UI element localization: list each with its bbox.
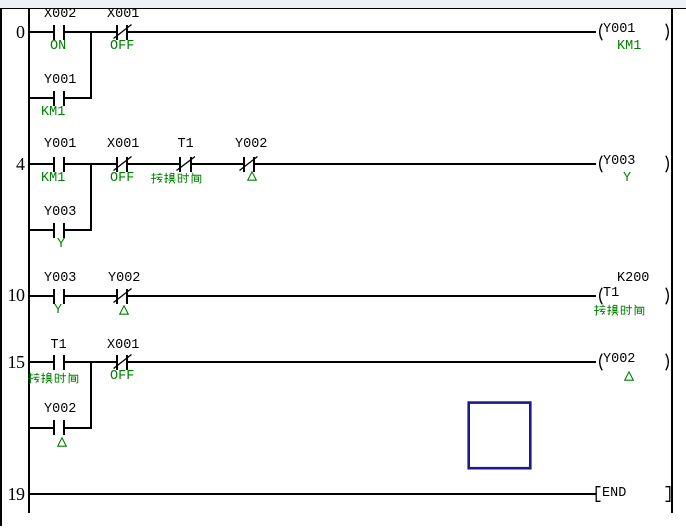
wire rung10 seg3	[128, 295, 596, 297]
selection box	[466, 400, 533, 471]
wire rung10 seg1	[30, 295, 54, 297]
comment Y coil	[623, 171, 631, 187]
NO contact Y003	[53, 289, 55, 304]
comment OFF rung4	[110, 171, 134, 187]
rung number 0	[0, 22, 25, 43]
comment ON	[50, 39, 66, 55]
comment KM1 branch	[41, 105, 65, 121]
label X001	[107, 7, 139, 23]
label END	[602, 486, 626, 502]
NC contact Y002 rung10	[116, 289, 118, 304]
wire rung0 seg3	[128, 31, 596, 33]
wire branch1 seg1	[30, 97, 54, 99]
NC contact T1	[179, 157, 181, 172]
label T1 coil	[603, 286, 619, 302]
junction rung4 branch	[90, 163, 92, 231]
comment triangle coil	[624, 371, 634, 382]
wire rung4 seg3	[128, 163, 179, 165]
NO contact Y001 branch	[53, 91, 55, 106]
NC contact X001 rung15	[116, 355, 118, 370]
label Y002 rung10	[108, 271, 140, 287]
wire branch1 seg2	[65, 97, 92, 99]
comment OFF rung15	[110, 369, 134, 385]
left power rail	[28, 8, 30, 513]
comment OFF	[110, 39, 134, 55]
rung number 10	[0, 285, 25, 306]
rung number 15	[0, 352, 25, 373]
wire branch3 seg2	[65, 427, 92, 429]
END instruction	[595, 486, 605, 502]
label Y001 coil	[603, 22, 635, 38]
wire branch2 seg2	[65, 229, 92, 231]
label Y002 branch	[44, 402, 76, 418]
comment KM1	[41, 171, 65, 187]
comment zhuanhuanshijian rung15	[28, 372, 81, 385]
label K200	[617, 271, 649, 287]
junction rung15 branch	[90, 361, 92, 429]
wire rung15 seg2	[65, 361, 116, 363]
coil Y001	[596, 23, 604, 41]
label Y003 rung10	[44, 271, 76, 287]
wire rung4 seg4	[192, 163, 243, 165]
NO contact T1 rung15	[53, 355, 55, 370]
NO contact Y002 branch	[53, 420, 55, 435]
comment triangle rung10	[119, 305, 129, 316]
coil Y003	[596, 155, 604, 173]
NO contact Y001	[53, 157, 55, 172]
rung number 4	[0, 154, 25, 175]
junction rung0 branch	[90, 31, 92, 99]
wire rung4 seg1	[30, 163, 54, 165]
comment triangle branch	[57, 437, 67, 448]
NC contact Y002 rung4	[243, 157, 245, 172]
label Y003 coil	[603, 154, 635, 170]
comment Y rung10	[54, 303, 62, 319]
wire branch3 seg1	[30, 427, 54, 429]
comment KM1 coil	[617, 39, 641, 55]
label Y002 rung4	[235, 137, 267, 153]
comment Y branch	[57, 237, 65, 253]
wire rung4 seg2	[65, 163, 116, 165]
label X002	[44, 7, 76, 23]
right power rail	[671, 8, 673, 513]
wire rung4 seg5	[255, 163, 597, 165]
NO contact Y003 branch	[53, 223, 55, 238]
NC contact X001 rung4	[116, 157, 118, 172]
label X001 rung15	[107, 338, 139, 354]
wire branch2 seg1	[30, 229, 54, 231]
label X001 rung4	[107, 137, 139, 153]
label Y002 coil	[603, 352, 635, 368]
wire rung10 seg2	[65, 295, 116, 297]
wire rung0 seg1	[30, 31, 54, 33]
comment zhuanhuanshijian coil	[594, 304, 647, 317]
rung number 19	[0, 484, 25, 505]
coil T1	[596, 287, 604, 305]
NO contact X002	[53, 25, 55, 40]
wire rung15 seg1	[30, 361, 54, 363]
comment triangle rung4	[247, 171, 257, 182]
comment zhuanhuanshijian rung4	[151, 172, 204, 185]
label Y001	[44, 137, 76, 153]
label Y001 branch	[44, 73, 76, 89]
NC contact X001	[116, 25, 118, 40]
coil Y002	[596, 353, 604, 371]
wire rung0 seg2	[65, 31, 116, 33]
label T1 rung15	[51, 338, 67, 354]
wire rung19	[30, 493, 596, 495]
wire rung15 seg3	[128, 361, 596, 363]
label Y003 branch	[44, 205, 76, 221]
label T1	[178, 137, 194, 153]
